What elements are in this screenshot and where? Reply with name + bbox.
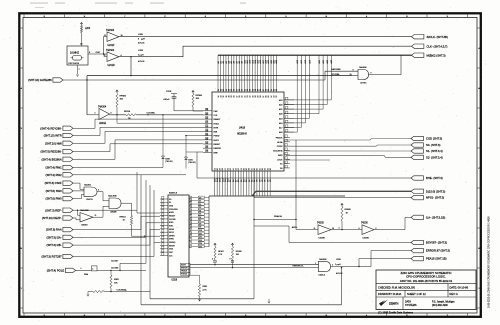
svg-text:BHE: BHE — [214, 152, 219, 154]
svg-text:D7: D7 — [199, 220, 201, 222]
svg-text:D0: D0 — [199, 197, 201, 199]
svg-text:SPED: SPED — [169, 239, 175, 241]
svg-text:P.S. Joseph, Michigan: P.S. Joseph, Michigan — [432, 301, 455, 303]
svg-text:D12: D12 — [199, 237, 202, 239]
svg-text:μμH: μμH — [141, 39, 145, 41]
svg-text:.047uF: .047uF — [163, 99, 170, 101]
svg-text:AFDI-: AFDI- — [292, 226, 298, 229]
svg-text:U264B: U264B — [110, 211, 117, 213]
svg-text:S0: S0 — [169, 199, 171, 201]
svg-text:M(B)02 (SHT.3): M(B)02 (SHT.3) — [427, 53, 446, 57]
svg-text:16: 16 — [190, 214, 192, 216]
svg-text:PEACK: PEACK — [276, 137, 283, 140]
svg-text:DRAWN BY: R.M.M.: DRAWN BY: R.M.M. — [378, 292, 402, 296]
svg-text:9: 9 — [190, 237, 191, 239]
svg-text:ASSY NO. 181-4936-1B PCB PN 8: ASSY NO. 181-4936-1B PCB PN 85-3222-01 — [400, 279, 453, 283]
svg-text:CLK: CLK — [214, 115, 219, 117]
svg-text:5: 5 — [95, 113, 96, 115]
svg-text:NPS1- (SHT.3): NPS1- (SHT.3) — [426, 196, 444, 200]
svg-text:A7: A7 — [235, 61, 238, 63]
svg-text:A6: A6 — [233, 61, 236, 63]
svg-text:(SHT.4) BS286A: (SHT.4) BS286A — [42, 157, 62, 161]
svg-text:COD-INTA: COD-INTA — [273, 150, 283, 153]
svg-text:U264D: U264D — [81, 224, 88, 226]
svg-text:(SHT.5) RES286-: (SHT.5) RES286- — [40, 150, 61, 154]
svg-text:A15: A15 — [257, 60, 260, 63]
svg-text:(SHT.3) RST287: (SHT.3) RST287 — [42, 255, 63, 259]
svg-text:8: 8 — [190, 240, 191, 242]
svg-text:31: 31 — [206, 118, 208, 120]
svg-text:CLK287: CLK287 — [111, 261, 119, 263]
svg-text:CPU286: CPU286 — [331, 74, 340, 76]
svg-text:30: 30 — [270, 168, 272, 170]
svg-text:74S05: 74S05 — [361, 223, 368, 225]
svg-text:A8: A8 — [238, 61, 241, 63]
svg-text:U329E: U329E — [319, 238, 326, 240]
svg-text:D13: D13 — [199, 240, 202, 242]
svg-text:(SHT.4) RW1: (SHT.4) RW1 — [46, 166, 63, 170]
svg-text:8: 8 — [230, 259, 231, 261]
svg-text:74AS04: 74AS04 — [98, 105, 107, 108]
svg-text:29: 29 — [206, 109, 208, 111]
svg-text:38: 38 — [206, 147, 208, 149]
svg-text:U319: U319 — [172, 280, 178, 282]
svg-text:(SHT.10) NMI: (SHT.10) NMI — [45, 141, 62, 145]
svg-text:D(15:0) (SHT.3): D(15:0) (SHT.3) — [426, 189, 445, 193]
svg-text:CKM: CKM — [169, 206, 173, 208]
svg-text:80286-8: 80286-8 — [237, 132, 247, 136]
svg-text:PEA16 (SHT.1B): PEA16 (SHT.1B) — [426, 257, 447, 261]
svg-text:A21: A21 — [322, 60, 325, 63]
svg-text:COD-INTA: COD-INTA — [169, 208, 178, 211]
svg-text:10K: 10K — [196, 98, 200, 100]
svg-text:6: 6 — [111, 113, 112, 115]
svg-text:RP417: RP417 — [218, 251, 224, 253]
svg-text:9: 9 — [353, 70, 354, 72]
svg-text:A16: A16 — [296, 60, 299, 63]
svg-text:BUSY: BUSY — [214, 140, 220, 142]
svg-text:D15: D15 — [199, 246, 202, 248]
svg-text:D3: D3 — [199, 207, 201, 209]
svg-text:A22: A22 — [275, 60, 278, 63]
svg-text:REV: A: REV: A — [450, 292, 459, 296]
svg-text:14: 14 — [190, 220, 192, 222]
svg-text:RP400: RP400 — [236, 251, 242, 253]
svg-text:CLK286: CLK286 — [111, 268, 119, 270]
svg-text:16.MHZ: 16.MHZ — [70, 52, 79, 55]
svg-text:(SHT.4) RW2: (SHT.4) RW2 — [46, 173, 63, 177]
svg-text:A3: A3 — [225, 61, 228, 63]
svg-text:(616) 982-3296: (616) 982-3296 — [432, 305, 448, 307]
svg-text:A11: A11 — [246, 60, 249, 63]
svg-text:39: 39 — [206, 151, 208, 153]
svg-text:8: 8 — [371, 72, 372, 74]
svg-text:U441A: U441A — [319, 274, 326, 277]
svg-text:74S05: 74S05 — [317, 223, 324, 225]
svg-text:GATE286: GATE286 — [331, 68, 341, 71]
svg-text:5: 5 — [81, 268, 82, 270]
svg-text:A75-01: A75-01 — [138, 60, 145, 63]
svg-text:74AS04: 74AS04 — [106, 29, 115, 32]
svg-text:(SHT.6) SW0: (SHT.6) SW0 — [46, 189, 63, 193]
svg-text:DATA: DATA — [405, 300, 411, 303]
svg-text:(SHT.10) DEZP-: (SHT.10) DEZP- — [42, 216, 62, 220]
svg-text:74AS11: 74AS11 — [84, 184, 92, 187]
svg-text:RESET: RESET — [169, 245, 176, 247]
svg-text:37: 37 — [206, 142, 208, 144]
svg-text:12: 12 — [276, 96, 278, 98]
svg-text:CLK286(3)-: CLK286(3)- — [117, 289, 128, 291]
svg-text:OSC: OSC — [96, 52, 101, 54]
svg-text:ERROR: ERROR — [214, 148, 222, 150]
svg-text:10: 10 — [350, 74, 352, 76]
svg-text:READY: READY — [214, 118, 222, 121]
svg-text:2: 2 — [92, 269, 93, 271]
svg-text:(SHT.3) I2A-: (SHT.3) I2A- — [47, 236, 62, 240]
svg-text:74AS08: 74AS08 — [319, 258, 327, 261]
svg-text:PEAKN-: PEAKN- — [274, 215, 282, 218]
svg-text:S1: S1 — [169, 202, 171, 204]
svg-text:D4: D4 — [199, 210, 201, 212]
svg-text:CKM: CKM — [169, 249, 173, 251]
svg-text:D380: D380 — [165, 158, 170, 160]
svg-text:74AS08: 74AS08 — [359, 66, 367, 69]
svg-text:RP408: RP408 — [345, 209, 352, 211]
svg-text:20: 20 — [190, 201, 192, 203]
svg-text:A19: A19 — [308, 60, 311, 63]
svg-text:SYSTEMS: SYSTEMS — [405, 304, 417, 307]
svg-text:3: 3 — [332, 264, 333, 266]
svg-text:D6: D6 — [199, 217, 201, 219]
svg-text:30: 30 — [206, 113, 208, 115]
svg-text:U279C: U279C — [360, 82, 367, 84]
svg-text:A20: A20 — [270, 60, 273, 63]
svg-text:U241F: U241F — [108, 45, 115, 47]
svg-text:(SHT.3) REF-: (SHT.3) REF- — [45, 208, 62, 212]
svg-text:8: 8 — [98, 189, 99, 191]
svg-text:INTR: INTR — [214, 127, 219, 129]
svg-text:(C) 1985 Zenith Data Systems: (C) 1985 Zenith Data Systems — [378, 310, 414, 314]
svg-text:12: 12 — [276, 89, 278, 91]
svg-text:S2- (SHT.3,4): S2- (SHT.3,4) — [426, 156, 443, 160]
svg-text:(SHT.4) POLE: (SHT.4) POLE — [47, 269, 65, 273]
svg-text:(SHT.3) I2B-: (SHT.3) I2B- — [47, 243, 62, 247]
svg-text:6: 6 — [190, 246, 191, 248]
svg-text:PEREQ: PEREQ — [169, 242, 176, 244]
svg-text:A20: A20 — [318, 60, 321, 63]
svg-text:U419: U419 — [239, 126, 246, 130]
svg-text:A10: A10 — [243, 60, 246, 63]
svg-text:A9: A9 — [241, 61, 244, 63]
svg-text:A21: A21 — [272, 60, 275, 63]
svg-text:4.7K: 4.7K — [203, 290, 208, 292]
svg-text:READY: READY — [169, 215, 176, 218]
svg-text:36: 36 — [206, 138, 208, 140]
svg-text:18: 18 — [190, 207, 192, 209]
svg-text:17: 17 — [190, 210, 192, 212]
svg-text:HLDA: HLDA — [277, 141, 283, 144]
svg-text:U241E: U241E — [99, 123, 106, 125]
svg-text:D381: D381 — [188, 159, 193, 161]
svg-text:U247G: U247G — [86, 199, 93, 201]
svg-text:D9: D9 — [199, 227, 201, 229]
svg-text:RP080: RP080 — [120, 96, 127, 98]
svg-text:D8: D8 — [199, 223, 201, 225]
svg-text:19: 19 — [190, 204, 192, 206]
svg-text:10: 10 — [190, 233, 192, 235]
svg-text:OSC1147J8: OSC1147J8 — [68, 63, 80, 65]
svg-text:11: 11 — [104, 35, 106, 37]
svg-text:NPWR: NPWR — [169, 235, 175, 237]
svg-text:D5: D5 — [199, 214, 201, 216]
svg-text:A22: A22 — [326, 60, 329, 63]
svg-text:M/IO: M/IO — [278, 155, 283, 157]
svg-text:D14: D14 — [199, 243, 202, 245]
svg-text:A75-01: A75-01 — [336, 272, 343, 275]
svg-text:NPRD: NPRD — [169, 229, 175, 231]
svg-text:32: 32 — [206, 122, 208, 124]
svg-text:L204: L204 — [85, 28, 91, 30]
svg-text:34: 34 — [206, 130, 208, 132]
svg-text:FORC0: FORC0 — [181, 274, 187, 276]
svg-text:LOCK: LOCK — [277, 159, 283, 161]
svg-text:12: 12 — [190, 227, 192, 229]
svg-text:(TB2-3F): (TB2-3F) — [188, 162, 196, 164]
svg-text:2 μμH: 2 μμH — [138, 54, 144, 56]
svg-text:NPS2: NPS2 — [169, 232, 174, 234]
svg-text:A1: A1 — [219, 61, 222, 63]
svg-text:IOR1: IOR1 — [169, 225, 173, 227]
svg-text:RP414: RP414 — [120, 217, 127, 219]
svg-text:RESET: RESET — [214, 144, 221, 146]
svg-text:L203: L203 — [138, 50, 144, 52]
svg-text:ALEN: ALEN — [169, 211, 174, 214]
svg-text:A0: A0 — [217, 61, 220, 63]
svg-text:35: 35 — [206, 134, 208, 136]
svg-text:HOLD: HOLD — [214, 123, 220, 125]
svg-text:(SHT.10) INTR: (SHT.10) INTR — [44, 134, 62, 138]
svg-text:IOR0: IOR0 — [169, 222, 173, 224]
svg-text:11: 11 — [314, 228, 316, 230]
svg-text:A17: A17 — [300, 60, 303, 63]
svg-text:9: 9 — [359, 228, 360, 230]
svg-text:BSY087- (SHT.3): BSY087- (SHT.3) — [426, 241, 447, 245]
svg-text:COD (SHT.3): COD (SHT.3) — [426, 137, 442, 141]
svg-text:(TB2-3F): (TB2-3F) — [165, 161, 173, 163]
svg-text:11: 11 — [95, 215, 97, 217]
svg-text:A12: A12 — [249, 60, 252, 63]
svg-text:L205: L205 — [138, 34, 144, 36]
svg-text:S1- (SHT.3,4): S1- (SHT.3,4) — [426, 149, 443, 153]
svg-text:RP014: RP014 — [124, 111, 131, 113]
svg-text:A75-01: A75-01 — [138, 41, 145, 44]
svg-text:15: 15 — [190, 217, 192, 219]
svg-text:D1: D1 — [199, 201, 201, 203]
svg-text:4: 4 — [212, 259, 213, 261]
svg-text:74ALS08: 74ALS08 — [108, 195, 117, 198]
svg-text:A5: A5 — [230, 61, 233, 63]
svg-text:A2: A2 — [222, 61, 225, 63]
svg-text:21: 21 — [190, 197, 192, 199]
svg-text:11: 11 — [190, 230, 192, 232]
svg-text:U329D: U329D — [363, 238, 370, 240]
svg-text:A16: A16 — [259, 60, 262, 63]
svg-text:U241D: U241D — [108, 65, 115, 67]
svg-text:A19: A19 — [267, 60, 270, 63]
svg-text:33: 33 — [206, 126, 208, 128]
svg-text:13: 13 — [190, 223, 192, 225]
svg-text:(SHT.3) CS0F: (SHT.3) CS0F — [45, 181, 62, 185]
svg-text:D 85-3222-01 Z240 GHS CPU/MEM: D 85-3222-01 Z240 GHS CPU/MEMORY SCHEMAT… — [488, 216, 491, 308]
svg-text:A18: A18 — [304, 60, 307, 63]
svg-text:BHE- (SHT.3): BHE- (SHT.3) — [426, 176, 443, 180]
svg-text:32CLK- (SHT.3B): 32CLK- (SHT.3B) — [427, 35, 448, 39]
svg-text:A17: A17 — [262, 60, 265, 63]
svg-text:D11: D11 — [199, 233, 202, 235]
svg-text:CODX: CODX — [277, 146, 283, 148]
svg-text:D2: D2 — [199, 204, 201, 206]
svg-text:7: 7 — [190, 243, 191, 245]
svg-text:A13: A13 — [251, 60, 254, 63]
svg-text:3: 3 — [104, 55, 105, 57]
svg-text:D10: D10 — [199, 230, 202, 232]
svg-text:(SHT.4) RDY286-: (SHT.4) RDY286- — [40, 126, 61, 130]
svg-text:NMI: NMI — [214, 132, 218, 134]
svg-text:PGRD: PGRD — [214, 136, 220, 138]
svg-text:(SHT.6) RW0: (SHT.6) RW0 — [46, 197, 63, 201]
svg-text:ILA- (SHT.3,1B): ILA- (SHT.3,1B) — [426, 216, 445, 220]
svg-text:74AS04: 74AS04 — [106, 49, 115, 52]
svg-text:RP080: RP080 — [196, 95, 203, 97]
svg-text:CHECKED: R.M. MICSCIOLSKI: CHECKED: R.M. MICSCIOLSKI — [378, 285, 415, 289]
svg-text:ZENITH: ZENITH — [389, 301, 398, 305]
svg-text:S0- (SHT.3): S0- (SHT.3) — [426, 143, 440, 147]
svg-text:80287-8: 80287-8 — [169, 193, 178, 195]
svg-text:ERROR.87 (SHT.3): ERROR.87 (SHT.3) — [426, 249, 450, 253]
svg-text:A18: A18 — [265, 60, 268, 63]
svg-text:CLK286: CLK286 — [169, 219, 176, 221]
svg-text:SHEET 1 OF 12: SHEET 1 OF 12 — [407, 292, 426, 296]
svg-text:CLK- (SHT.4,5,7): CLK- (SHT.4,5,7) — [427, 44, 448, 48]
svg-text:4: 4 — [339, 228, 340, 230]
svg-text:(SHT.6) RAA: (SHT.6) RAA — [46, 228, 62, 232]
svg-text:CAP: CAP — [214, 110, 219, 113]
svg-text:(SHT.10) GATE286: (SHT.10) GATE286 — [28, 78, 52, 82]
svg-text:DATE: 06-10-86: DATE: 06-10-86 — [450, 285, 469, 289]
svg-text:CPU-COPROCESSOR LOGIC.: CPU-COPROCESSOR LOGIC. — [406, 275, 446, 279]
svg-text:C219: C219 — [166, 91, 172, 93]
svg-text:A23: A23 — [330, 60, 333, 63]
svg-text:1: 1 — [315, 263, 316, 265]
